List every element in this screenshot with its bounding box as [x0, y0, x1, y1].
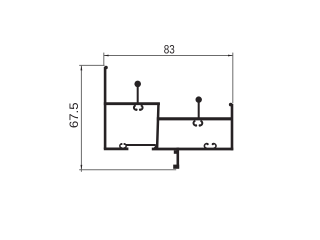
pin P1 stem: [137, 86, 139, 104]
screw boss 2 left finger: [204, 144, 207, 149]
dimension 67.5 arrow bottom: [81, 165, 83, 170]
dimension 83 line: [104, 55, 233, 57]
step wall: [157, 103, 158, 148]
dimension 67.5 extension line top: [79, 64, 104, 66]
left wall: [104, 67, 107, 149]
screw boss 2 left tip: [207, 143, 209, 145]
pin P1 claw right tip: [139, 109, 141, 111]
pin P2 claw left: [194, 121, 197, 126]
left wall top knob: [104, 66, 108, 70]
svg-text:67.5: 67.5: [66, 102, 80, 128]
inner floor line: [126, 144, 156, 146]
screw boss left tip: [121, 143, 123, 145]
step wall foot flare: [152, 145, 159, 150]
screw boss left finger: [120, 144, 122, 148]
dimension 83 extension line right: [232, 53, 234, 103]
dimension 67.5 extension line bottom: [79, 169, 176, 171]
dimension 67.5 arrow top: [81, 66, 83, 71]
dimension 83 arrow right: [228, 55, 233, 57]
screw boss right finger: [124, 144, 126, 148]
dimension 83 extension line left: [103, 53, 105, 66]
screw boss 2 right finger: [213, 144, 216, 149]
right wall: [231, 104, 234, 151]
pin P2 head: [196, 96, 202, 102]
pin P1 claw left: [134, 105, 137, 109]
upper shelf: [104, 102, 160, 105]
right wall top knob: [229, 103, 233, 107]
pin P1 claw left tip: [135, 109, 137, 111]
pin P2 claw right tip: [199, 124, 201, 126]
dimension 83 arrow left: [104, 55, 109, 57]
bottom plate left: [104, 147, 129, 150]
pin P2 stem: [198, 102, 200, 119]
pin P1 claw right: [140, 105, 143, 109]
screw boss right tip: [123, 143, 125, 145]
lower shelf: [157, 117, 233, 120]
screw boss 2 right tip: [212, 143, 214, 145]
glazing hook nub: [174, 150, 177, 153]
pin P2 claw left tip: [195, 124, 197, 126]
glazing hook bar: [177, 148, 180, 169]
svg-text:83: 83: [164, 44, 175, 57]
pin P1 head: [134, 81, 141, 88]
bottom plate right: [152, 148, 234, 151]
glazing hook foot: [173, 165, 179, 169]
pin P2 claw right: [200, 121, 203, 126]
dimension 67.5 line: [80, 65, 82, 171]
